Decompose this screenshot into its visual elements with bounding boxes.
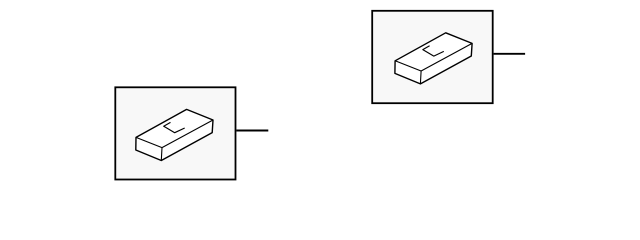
module M2 in box 2: [395, 33, 472, 84]
callout wire from box 1: [236, 130, 268, 132]
module M1 in box 1: [136, 109, 213, 160]
callout wire from box 2: [494, 53, 525, 55]
thumbnail box 1: [115, 87, 235, 179]
thumbnail box 2: [372, 11, 493, 103]
